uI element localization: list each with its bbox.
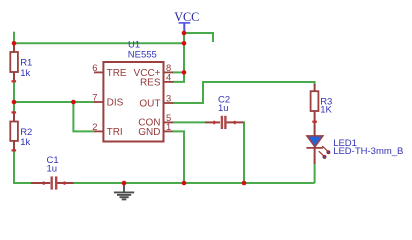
svg-text:1K: 1K	[320, 105, 332, 116]
junction dot VCC rail left	[12, 41, 17, 46]
pin 5 CON	[138, 112, 173, 129]
svg-text:7: 7	[92, 92, 97, 103]
svg-text:DIS: DIS	[107, 98, 124, 109]
pin 4 RES	[140, 71, 174, 88]
pin 6 TRE	[92, 62, 127, 79]
resistor R3	[311, 84, 333, 123]
LED arrow 2	[319, 151, 327, 159]
svg-text:3: 3	[166, 93, 171, 104]
svg-text:1: 1	[166, 121, 171, 132]
svg-text:6: 6	[92, 62, 97, 73]
pin 7 DIS	[92, 92, 123, 109]
wire pin3 OUT to R3	[172, 82, 315, 103]
wire VCC vertical to pin8	[183, 33, 185, 72]
wire pin1 GND elbow down	[172, 131, 184, 183]
junction node B dot	[71, 100, 76, 105]
op-amp U1 body (NE555 timer IC)	[103, 40, 163, 142]
svg-text:1k: 1k	[20, 68, 30, 79]
wire node B vertical to pin2	[73, 102, 94, 131]
resistor R1	[10, 43, 32, 82]
capacitor C2	[205, 95, 244, 130]
svg-text:1u: 1u	[47, 163, 58, 174]
junction node A dot	[12, 100, 17, 105]
LED arrow 1	[322, 146, 330, 154]
wire R2 bottom to rail	[14, 151, 32, 183]
junction dot ground	[122, 181, 127, 186]
svg-text:1u: 1u	[218, 103, 229, 114]
capacitor C1	[31, 155, 74, 190]
svg-text:RES: RES	[140, 77, 161, 88]
svg-text:2: 2	[92, 121, 97, 132]
junction dot VCC top	[182, 31, 187, 36]
junction dot VCC rail right	[182, 41, 187, 46]
wire R1 bottom to node A	[13, 82, 15, 112]
svg-text:VCC: VCC	[174, 10, 199, 24]
junction dot C2 rail	[242, 181, 247, 186]
wire top stub above R1	[13, 32, 15, 44]
svg-text:4: 4	[166, 71, 171, 82]
wire pin4 elbow	[173, 72, 184, 82]
wire bottom rail	[73, 182, 315, 184]
junction dot pin1 rail	[182, 181, 187, 186]
pin 8 VCC+	[134, 62, 173, 79]
pin 3 OUT	[139, 93, 173, 110]
pin 1 GND	[138, 121, 172, 138]
resistor R2	[10, 111, 32, 151]
svg-text:OUT: OUT	[139, 98, 160, 109]
svg-text:R1: R1	[20, 57, 32, 68]
wire C2 right elbow down	[243, 122, 244, 183]
svg-text:GND: GND	[138, 127, 160, 138]
ground	[114, 183, 134, 199]
svg-text:LED-TH-3mm_B: LED-TH-3mm_B	[333, 146, 403, 157]
wire LED cathode to rail	[314, 163, 316, 183]
svg-text:NE555: NE555	[128, 50, 157, 61]
svg-text:TRE: TRE	[107, 68, 127, 79]
wire VCC stub right	[184, 33, 213, 42]
wire node A horizontal to pin7	[14, 101, 95, 103]
LED LED1	[306, 123, 403, 165]
wire top horizontal R1 to VCC	[14, 42, 184, 44]
svg-text:1k: 1k	[20, 137, 30, 148]
pin 2 TRI	[92, 121, 122, 138]
junction dot pin8	[182, 70, 187, 75]
svg-text:TRI: TRI	[107, 127, 123, 138]
wire pin8 to VCC line	[172, 71, 184, 73]
net VCC flag	[174, 10, 199, 33]
wire pin5 to C2	[172, 121, 205, 123]
